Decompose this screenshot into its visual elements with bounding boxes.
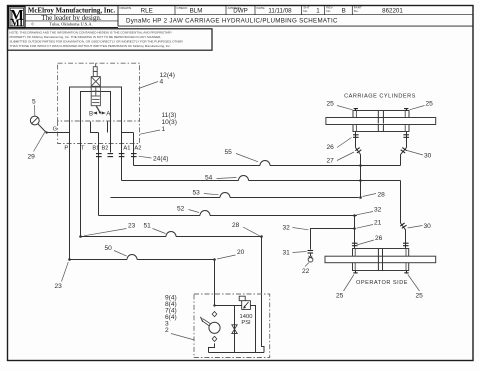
svg-text:SUBMITTED OUTSIDE PARTIES FOR: SUBMITTED OUTSIDE PARTIES FOR EXAMINATIO… [10, 40, 184, 44]
pump top fitting diamond [212, 312, 217, 317]
label 26 right [357, 235, 383, 245]
operator bottom vent fittings [353, 271, 408, 274]
label 30 top [407, 151, 432, 160]
label 28 left [232, 222, 260, 236]
valve U1 stem neck [93, 71, 97, 76]
label 31 [283, 250, 307, 257]
svg-text:25: 25 [327, 101, 335, 108]
label 20 [217, 249, 245, 259]
wire check valve branch [234, 306, 236, 353]
label 25 operator left [336, 275, 354, 300]
svg-text:DATE.: DATE. [257, 6, 266, 10]
svg-text:1: 1 [316, 8, 320, 15]
svg-text:26: 26 [327, 144, 335, 151]
label 26 top [327, 138, 352, 152]
svg-text:29: 29 [28, 154, 36, 161]
svg-text:MI: MI [11, 18, 24, 28]
svg-text:11/11/08: 11/11/08 [268, 8, 292, 15]
svg-text:DynaMc HP 2 JAW CARRIAGE HYDRA: DynaMc HP 2 JAW CARRIAGE HYDRAULIC/PLUMB… [126, 18, 338, 25]
svg-text:G: G [53, 126, 57, 132]
hose line 50 (P feed) [70, 255, 215, 260]
label 30 bottom [408, 223, 432, 230]
carriage right port w/ elbow 30 [401, 132, 410, 155]
svg-text:PROPERTY OF McElroy Manufactur: PROPERTY OF McElroy Manufacturing, Inc. … [10, 35, 162, 39]
valve U1 body 3-position [91, 77, 100, 106]
label 11(3) / 10(3) / 1 [140, 112, 177, 134]
svg-text:52: 52 [177, 206, 185, 213]
wire A bracket to A2 [122, 132, 134, 134]
hose line 52 (B1) [99, 211, 358, 216]
svg-text:50: 50 [105, 245, 113, 252]
valve U1 lever [96, 106, 101, 114]
label 25 operator right [408, 275, 423, 300]
svg-text:23: 23 [55, 283, 63, 290]
valve U1 stem cap [93, 67, 97, 72]
svg-text:25: 25 [416, 293, 424, 300]
operator cylinder bodies [353, 249, 409, 271]
phantom box valve assembly 4/12(4) [58, 63, 140, 121]
label 32 left [283, 225, 309, 232]
manifold port labels [64, 146, 141, 152]
svg-text:RLE: RLE [141, 8, 153, 15]
carriage tie bar [326, 118, 436, 125]
svg-text:30: 30 [424, 223, 432, 230]
label 55 [225, 149, 259, 162]
fitting 31 ticks [308, 251, 314, 254]
label 25 carriage right [410, 101, 434, 110]
label 23 upper [84, 223, 136, 236]
label 52 [177, 206, 199, 213]
title block: company name cell [25, 6, 118, 28]
svg-text:A2: A2 [134, 146, 141, 152]
pressure gauge 5 [30, 116, 39, 125]
wire feed drop to pump box [214, 260, 216, 306]
label 12(4) / 4 [139, 72, 175, 89]
wire line52 drop / vertical B to operator left port [354, 216, 356, 249]
svg-text:32: 32 [283, 225, 291, 232]
svg-text:5: 5 [32, 99, 36, 106]
top vent fittings 25 [354, 108, 409, 111]
svg-text:25: 25 [426, 101, 434, 108]
svg-text:BLM: BLM [190, 8, 203, 15]
svg-text:11(3): 11(3) [162, 112, 177, 119]
wire B1 drop [98, 133, 100, 216]
svg-text:B1: B1 [92, 146, 99, 152]
svg-text:THAN THOSE FOR WHICH IT WAS FU: THAN THOSE FOR WHICH IT WAS FURNISHED WI… [10, 44, 171, 48]
svg-text:26: 26 [375, 235, 383, 242]
carriage left port w/ fitting 26 [353, 132, 359, 148]
hose line 55 (A2 to cylinders) [134, 161, 401, 166]
wire A1 drop [121, 133, 123, 181]
hose line 53 (B2) [111, 193, 359, 198]
wire A2 drop [133, 133, 135, 166]
wire return drop to pump box [262, 237, 265, 353]
svg-text:CHECK.: CHECK. [177, 6, 189, 10]
label 24(4) [139, 156, 169, 163]
svg-text:10(3): 10(3) [162, 119, 177, 126]
svg-text:31: 31 [283, 250, 291, 257]
label 23 lower [55, 262, 69, 290]
bleeder valve 22 [308, 253, 313, 262]
wire left cyl drop / vertical A [360, 155, 362, 198]
svg-text:2: 2 [165, 327, 169, 334]
svg-text:23: 23 [128, 223, 136, 230]
label 54 [205, 175, 237, 182]
svg-text:51: 51 [144, 223, 152, 230]
elbow 30 bottom ticks [400, 223, 406, 228]
carriage cylinder bodies [353, 111, 409, 132]
svg-text:20: 20 [237, 249, 245, 256]
label 5 [32, 99, 36, 116]
svg-text:T: T [81, 146, 85, 152]
wire bleed branch [311, 229, 355, 250]
operator right port fitting ticks [403, 243, 409, 246]
svg-text:DRAWN.: DRAWN. [120, 6, 133, 10]
svg-text:NOTE: THIS DRAWING AND THE INF: NOTE: THIS DRAWING AND THE INFORMATION C… [10, 31, 173, 35]
check valve V1 [232, 325, 237, 334]
wire T down to tank return corner [80, 144, 82, 237]
wire tank manifold line [209, 352, 265, 354]
wire T loop (T port up to B2 drop) [81, 92, 111, 153]
wire valve B stub to B1 [91, 122, 99, 133]
svg-text:B: B [89, 110, 93, 117]
label 53 [193, 190, 219, 197]
relief valve RV1 1400 PSI [239, 296, 250, 309]
svg-text:22: 22 [302, 268, 310, 275]
wire P loop (P port up over valve to A1 drop) [70, 87, 122, 153]
svg-text:PSI: PSI [241, 320, 251, 326]
label 29 [28, 131, 46, 161]
valve U1 stem pin [95, 63, 97, 66]
wire pump internal feed [215, 306, 256, 353]
pump feed junction [213, 304, 215, 306]
valve port labels B / A with arrows [89, 110, 111, 117]
label 32 right [357, 207, 382, 215]
pump bottom fitting diamond [212, 336, 217, 341]
svg-text:DWP: DWP [233, 8, 247, 15]
pump group labels [165, 295, 177, 335]
label 51 [144, 223, 166, 234]
disclaimer note box [8, 29, 213, 50]
wire P down to pump feed corner [69, 144, 71, 260]
wire line54 drop to operator right port [401, 181, 406, 249]
svg-text:B: B [342, 8, 346, 15]
title block: logo box [9, 7, 25, 28]
hand pump P1 [201, 317, 221, 334]
hose line 54 (A1) [122, 176, 401, 181]
wire right cyl drop to line 55 [400, 155, 402, 166]
svg-text:53: 53 [193, 190, 201, 197]
hose line 51 (T return) [81, 232, 262, 237]
label 25 carriage left [327, 101, 353, 110]
elbow 27 [355, 148, 361, 155]
svg-text:28: 28 [378, 192, 386, 199]
wire valve A stub [107, 122, 109, 133]
svg-text:54: 54 [205, 175, 213, 182]
svg-text:27: 27 [327, 158, 335, 165]
svg-text:32: 32 [374, 207, 382, 214]
svg-text:21: 21 [374, 220, 382, 227]
svg-text:24(4): 24(4) [153, 156, 168, 163]
label 50 [105, 245, 127, 256]
label 28 right [363, 192, 386, 199]
svg-text:CARRIAGE CYLINDERS: CARRIAGE CYLINDERS [344, 94, 416, 100]
label 22 [302, 263, 310, 275]
svg-text:30: 30 [424, 153, 432, 160]
operator left port fitting ticks 26 [352, 243, 358, 246]
svg-text:A1: A1 [123, 146, 130, 152]
label 27 [327, 152, 355, 165]
label 21 [357, 220, 382, 229]
wire gauge to port G [38, 124, 70, 134]
carriage center divider over bar [378, 117, 383, 123]
svg-text:No.: No. [303, 9, 308, 13]
title block: info grid [118, 6, 473, 27]
svg-text:25: 25 [336, 293, 344, 300]
svg-text:P: P [64, 146, 68, 152]
svg-text:B2: B2 [102, 146, 109, 152]
junction T / 23 [79, 235, 82, 238]
svg-text:1: 1 [162, 126, 166, 133]
svg-text:28: 28 [232, 222, 240, 229]
svg-text:4: 4 [160, 79, 164, 86]
svg-text:No.: No. [326, 9, 331, 13]
svg-text:No.: No. [354, 9, 359, 13]
port fittings 24(4) double ticks [96, 154, 137, 157]
wire pump suction hook [209, 343, 215, 352]
phantom box manifold 1/10(3)/11(3) [58, 121, 140, 144]
operator center divider over bar [378, 256, 382, 263]
svg-text:862201: 862201 [382, 8, 403, 15]
svg-text:OPERATOR SIDE: OPERATOR SIDE [356, 280, 408, 286]
svg-text:55: 55 [225, 149, 233, 156]
operator tie bar [325, 256, 436, 263]
phantom box pump assembly 2 [194, 294, 270, 358]
